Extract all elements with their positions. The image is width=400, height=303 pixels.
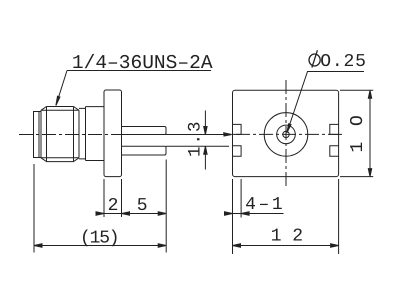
svg-text:1 O: 1 O [348, 113, 368, 153]
svg-text:1.3: 1.3 [185, 119, 205, 157]
svg-text:5: 5 [137, 196, 148, 216]
svg-text:O.25: O.25 [320, 52, 366, 72]
svg-text:1/4–36UNS–2A: 1/4–36UNS–2A [72, 52, 213, 74]
svg-text:4–1: 4–1 [245, 195, 285, 215]
svg-text:1 2: 1 2 [271, 227, 303, 247]
svg-text:2: 2 [108, 196, 119, 216]
svg-text:(15): (15) [80, 229, 118, 249]
